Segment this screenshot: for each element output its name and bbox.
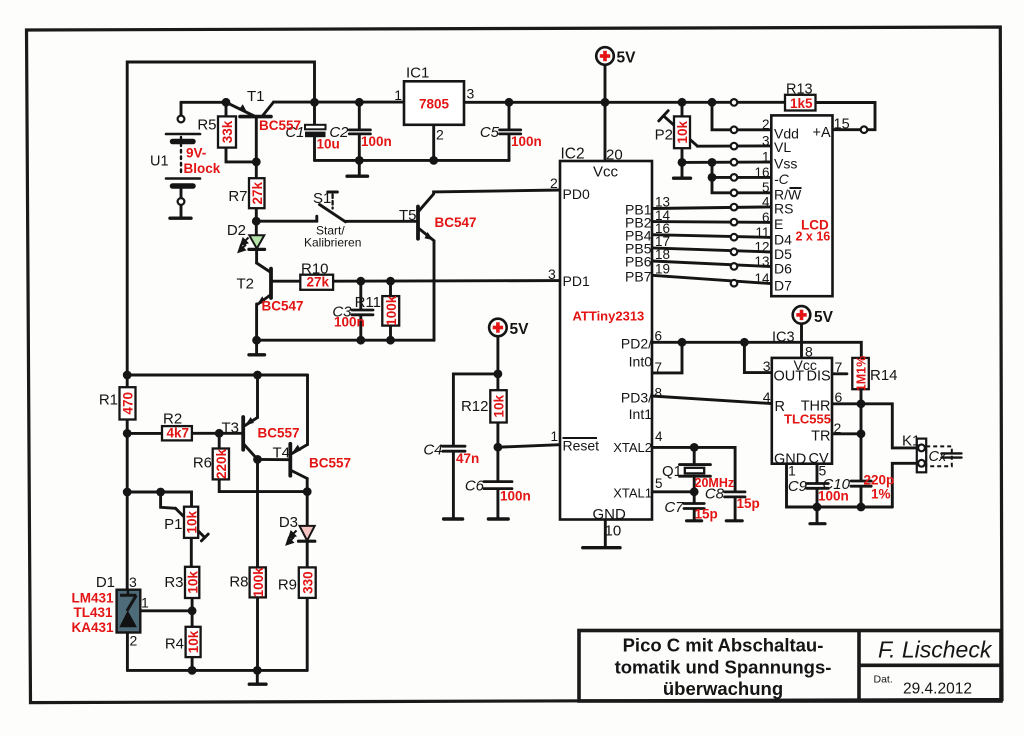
svg-text:27k: 27k (250, 181, 265, 204)
svg-text:U1: U1 (150, 154, 169, 170)
svg-text:16: 16 (754, 165, 769, 180)
svg-text:18: 18 (655, 247, 670, 262)
svg-text:7805: 7805 (419, 97, 450, 112)
svg-text:GND: GND (593, 506, 627, 523)
svg-text:R5: R5 (197, 117, 216, 134)
svg-text:PD1: PD1 (563, 273, 590, 289)
svg-text:2: 2 (762, 117, 770, 132)
svg-text:K1: K1 (902, 433, 920, 450)
svg-text:Q1: Q1 (662, 463, 682, 480)
svg-text:TL431: TL431 (73, 605, 113, 620)
svg-text:D7: D7 (774, 278, 792, 294)
svg-text:19: 19 (655, 262, 670, 277)
svg-text:5V: 5V (510, 321, 530, 338)
svg-text:11: 11 (755, 225, 769, 240)
svg-text:C6: C6 (465, 478, 485, 495)
svg-text:2: 2 (130, 633, 138, 649)
svg-text:F. Lischeck: F. Lischeck (878, 637, 993, 663)
svg-text:E: E (774, 216, 783, 232)
svg-text:T5: T5 (399, 207, 417, 224)
svg-text:P2: P2 (655, 127, 673, 144)
svg-text:3: 3 (763, 358, 771, 374)
svg-text:1: 1 (788, 463, 796, 479)
svg-text:C4: C4 (423, 442, 442, 459)
svg-text:13: 13 (754, 254, 769, 269)
svg-text:PD0: PD0 (563, 186, 590, 202)
svg-text:OUT: OUT (774, 369, 805, 385)
svg-text:D2: D2 (227, 222, 246, 239)
svg-text:TLC555: TLC555 (784, 412, 831, 427)
svg-text:-C: -C (774, 171, 790, 187)
svg-text:Pico C mit Abschaltau-: Pico C mit Abschaltau- (623, 635, 824, 656)
svg-text:RS: RS (774, 201, 793, 217)
svg-text:10k: 10k (186, 630, 201, 653)
svg-text:T1: T1 (247, 88, 265, 105)
svg-text:XTAL1: XTAL1 (613, 486, 652, 501)
svg-text:IC2: IC2 (561, 146, 585, 163)
svg-text:R4: R4 (165, 636, 184, 653)
svg-text:R3: R3 (164, 574, 183, 591)
svg-text:330: 330 (300, 571, 315, 594)
svg-text:C9: C9 (788, 478, 808, 495)
svg-text:R8: R8 (229, 574, 248, 591)
svg-text:10k: 10k (185, 571, 200, 594)
svg-text:R12: R12 (461, 398, 489, 415)
svg-text:1: 1 (762, 150, 770, 165)
svg-text:T4: T4 (272, 445, 290, 462)
svg-text:20MHz: 20MHz (695, 476, 735, 490)
svg-text:überwachung: überwachung (663, 678, 783, 699)
svg-text:100n: 100n (818, 489, 849, 504)
svg-text:IC3: IC3 (772, 330, 795, 346)
svg-text:10: 10 (605, 523, 622, 540)
svg-text:10u: 10u (317, 137, 340, 152)
svg-text:1: 1 (551, 429, 559, 444)
svg-text:T3: T3 (221, 420, 239, 437)
svg-text:2: 2 (436, 127, 444, 143)
svg-text:2: 2 (550, 175, 558, 191)
svg-text:1k5: 1k5 (790, 96, 813, 111)
svg-text:Block: Block (184, 161, 221, 176)
svg-text:BC547: BC547 (435, 215, 477, 230)
svg-text:10k: 10k (184, 511, 199, 534)
svg-text:100n: 100n (511, 134, 542, 149)
svg-text:T2: T2 (236, 276, 254, 293)
svg-text:S1: S1 (313, 190, 331, 207)
svg-text:PD2/: PD2/ (621, 336, 652, 352)
svg-text:10k: 10k (492, 395, 507, 418)
svg-text:100n: 100n (500, 489, 531, 504)
svg-text:tomatik und Spannungs-: tomatik und Spannungs- (615, 657, 832, 678)
svg-text:ATTiny2313: ATTiny2313 (573, 309, 645, 324)
svg-text:15p: 15p (695, 507, 718, 522)
svg-text:1%: 1% (871, 487, 891, 502)
svg-text:R11: R11 (355, 294, 381, 311)
svg-text:33k: 33k (220, 120, 235, 143)
svg-text:BC547: BC547 (262, 299, 304, 314)
svg-text:Reset: Reset (563, 438, 600, 454)
svg-text:220k: 220k (214, 448, 229, 479)
svg-text:3: 3 (762, 134, 770, 149)
svg-text:Int0: Int0 (629, 354, 653, 370)
svg-text:R14: R14 (870, 367, 898, 384)
svg-text:100n: 100n (361, 134, 392, 149)
svg-text:D3: D3 (279, 514, 298, 531)
svg-text:12: 12 (754, 240, 769, 255)
svg-text:9V-: 9V- (186, 146, 206, 161)
svg-text:R6: R6 (193, 455, 212, 472)
svg-text:BC557: BC557 (259, 118, 301, 133)
svg-text:DIS: DIS (807, 369, 831, 385)
svg-text:Vcc: Vcc (593, 164, 619, 181)
svg-text:Kalibrieren: Kalibrieren (304, 236, 361, 250)
svg-text:VL: VL (774, 139, 791, 155)
svg-text:PB7: PB7 (625, 269, 652, 285)
svg-text:Vss: Vss (774, 156, 797, 172)
svg-text:8: 8 (655, 386, 663, 401)
svg-text:2 x 16: 2 x 16 (796, 230, 831, 244)
svg-text:14: 14 (754, 271, 770, 286)
svg-text:5: 5 (762, 180, 770, 195)
svg-text:KA431: KA431 (71, 620, 114, 635)
svg-text:20: 20 (606, 147, 623, 164)
svg-text:Dat.: Dat. (874, 674, 893, 686)
svg-text:47n: 47n (456, 451, 479, 466)
svg-text:3: 3 (548, 266, 556, 282)
svg-text:4: 4 (762, 195, 770, 210)
svg-text:PD3/: PD3/ (621, 390, 652, 406)
svg-text:Cx: Cx (929, 449, 947, 465)
svg-text:TR: TR (811, 429, 830, 445)
svg-text:C5: C5 (480, 124, 500, 141)
svg-text:6: 6 (835, 389, 843, 405)
svg-text:1: 1 (141, 595, 149, 611)
svg-text:3: 3 (467, 86, 475, 102)
svg-text:IC1: IC1 (406, 65, 429, 82)
svg-text:6: 6 (655, 329, 663, 344)
svg-text:7: 7 (655, 360, 663, 375)
svg-text:7: 7 (835, 359, 843, 375)
svg-text:5V: 5V (617, 50, 637, 67)
svg-text:470: 470 (121, 392, 136, 415)
svg-text:100k: 100k (384, 295, 399, 326)
svg-text:4: 4 (655, 429, 663, 444)
svg-text:10k: 10k (675, 121, 690, 144)
svg-text:R7: R7 (228, 188, 247, 205)
svg-text:5V: 5V (814, 309, 834, 326)
svg-text:29.4.2012: 29.4.2012 (903, 681, 972, 698)
svg-text:+A: +A (813, 125, 831, 141)
svg-text:BC557: BC557 (258, 426, 300, 441)
svg-text:PB6: PB6 (625, 254, 652, 270)
svg-text:LM431: LM431 (71, 591, 114, 606)
svg-text:D1: D1 (96, 574, 115, 591)
svg-text:P1: P1 (164, 516, 182, 533)
svg-text:R9: R9 (278, 577, 297, 594)
svg-text:100k: 100k (251, 567, 266, 598)
svg-text:4k7: 4k7 (167, 426, 190, 441)
svg-text:220p: 220p (864, 473, 895, 488)
svg-text:BC557: BC557 (309, 456, 351, 471)
svg-text:6: 6 (762, 210, 770, 225)
svg-text:1: 1 (394, 87, 402, 103)
svg-text:Int1: Int1 (629, 406, 653, 422)
svg-text:R1: R1 (99, 392, 118, 409)
svg-text:D6: D6 (774, 261, 792, 277)
svg-text:15: 15 (834, 117, 850, 133)
svg-text:2: 2 (834, 420, 842, 436)
svg-text:1M1%: 1M1% (855, 356, 869, 391)
svg-text:3: 3 (129, 574, 137, 590)
svg-text:27k: 27k (307, 275, 330, 290)
svg-text:100n: 100n (334, 315, 365, 330)
svg-text:C7: C7 (664, 499, 684, 516)
svg-text:15p: 15p (737, 496, 760, 511)
svg-text:XTAL2: XTAL2 (613, 440, 652, 455)
svg-text:4: 4 (763, 389, 771, 405)
